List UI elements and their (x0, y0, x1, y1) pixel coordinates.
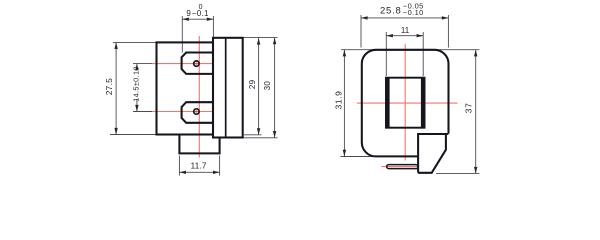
extension line 11.7 left (178, 156, 180, 176)
dimension line 11.7 (179, 171, 219, 173)
extension line 11 left (385, 32, 387, 76)
coil window right wall (421, 78, 425, 128)
svg-text:11.7: 11.7 (191, 161, 207, 171)
svg-text:14.5±0.10: 14.5±0.10 (132, 66, 141, 102)
dimension line 11 (386, 35, 423, 37)
extension line 29 bottom (244, 134, 262, 136)
extension line flange top right (243, 37, 278, 39)
extension line 11.7 right (219, 156, 221, 176)
centerline vertical right view (404, 44, 406, 161)
extension line 14.5 bottom (133, 111, 157, 113)
dimension line 30 (274, 38, 276, 138)
svg-text:29: 29 (248, 79, 257, 89)
svg-text:0: 0 (199, 4, 203, 11)
svg-text:30: 30 (263, 81, 272, 91)
centerline vertical left view (198, 36, 200, 158)
extension line 27.5 bottom (110, 134, 157, 136)
svg-text:25.8: 25.8 (380, 5, 402, 16)
extension line 9 right (212, 16, 214, 38)
extension line 30 bottom (242, 137, 278, 139)
svg-text:9: 9 (186, 9, 191, 18)
dimension line 25.8 (361, 17, 448, 19)
extension line 11 right (422, 32, 424, 76)
svg-text:31.9: 31.9 (333, 91, 343, 110)
centerline lead wire (382, 166, 422, 168)
bottom boss outline (179, 135, 219, 154)
centerline horizontal right view (357, 102, 458, 104)
extension line 27.5 top (113, 41, 157, 43)
dimension line 37 (475, 50, 477, 174)
extension line 31.9 bottom (341, 156, 375, 158)
centerline terminal 2 (152, 111, 214, 113)
extension line 37 top (435, 49, 479, 51)
extension line 31.9 top (341, 49, 376, 51)
dimension line 27.5 (115, 42, 117, 134)
terminal 2 hole (194, 109, 199, 114)
terminal 2 outline (182, 102, 213, 123)
dimension line 9 (182, 18, 213, 20)
svg-text:−0.10: −0.10 (403, 8, 424, 17)
svg-text:11: 11 (401, 26, 410, 35)
flange inner line (225, 38, 227, 138)
mounting foot fill (418, 134, 446, 173)
coil window left wall (386, 78, 390, 128)
extension line 25.8 right (447, 15, 449, 48)
mounting foot outline (418, 134, 448, 173)
dimension line 31.9 (343, 50, 345, 157)
flange outline (213, 38, 243, 138)
extension line 9 left (181, 16, 183, 53)
dimension line 14.5 (136, 64, 138, 66)
svg-text:27.5: 27.5 (104, 78, 114, 95)
terminal 1 hole (194, 61, 199, 66)
body outline left view (157, 42, 214, 134)
lead wire outline (387, 165, 418, 169)
coil window outline (386, 78, 425, 128)
dimension line 29 (258, 38, 260, 135)
extension line 37 bottom (436, 173, 479, 175)
bobbin body outline (362, 50, 449, 157)
centerline terminal 1 (152, 63, 214, 65)
svg-text:37: 37 (463, 102, 473, 113)
extension line 25.8 left (360, 15, 362, 48)
terminal 1 outline (182, 53, 213, 74)
extension line 14.5 top (133, 63, 157, 65)
